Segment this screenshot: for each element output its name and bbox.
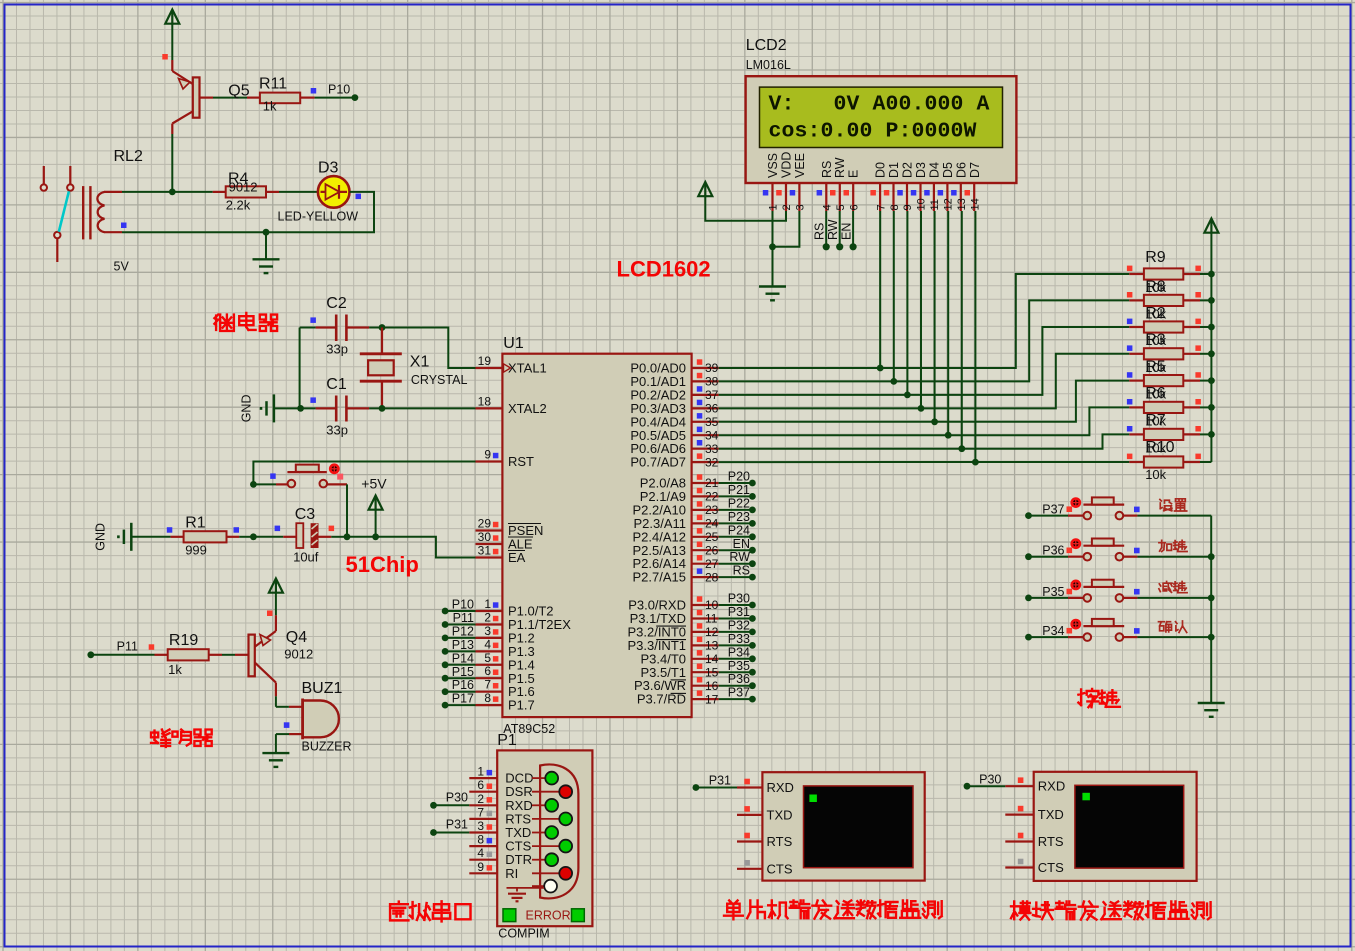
svg-text:Q5: Q5	[228, 83, 249, 100]
svg-text:P34: P34	[728, 645, 750, 659]
svg-text:P10: P10	[328, 83, 350, 97]
svg-text:RST: RST	[508, 454, 534, 469]
svg-text:BUZZER: BUZZER	[302, 740, 352, 754]
svg-text:Q4: Q4	[286, 629, 307, 646]
svg-text:9: 9	[477, 860, 484, 874]
svg-text:R8: R8	[1145, 279, 1166, 296]
svg-text:VDD: VDD	[780, 152, 794, 178]
svg-text:14: 14	[705, 652, 719, 666]
svg-text:R6: R6	[1145, 385, 1166, 402]
svg-text:XTAL2: XTAL2	[508, 401, 547, 416]
svg-text:8: 8	[484, 691, 491, 705]
svg-text:TXD: TXD	[767, 807, 793, 822]
svg-text:5: 5	[484, 651, 491, 665]
svg-text:6: 6	[484, 664, 491, 678]
svg-text:D1: D1	[887, 162, 901, 178]
svg-text:P11: P11	[117, 640, 138, 654]
svg-text:R2: R2	[1145, 305, 1166, 322]
svg-text:16: 16	[705, 679, 719, 693]
svg-text:10uf: 10uf	[293, 550, 319, 565]
svg-text:EN: EN	[840, 223, 854, 240]
svg-text:LED-YELLOW: LED-YELLOW	[278, 210, 359, 224]
svg-text:26: 26	[705, 544, 719, 558]
svg-text:COMPIM: COMPIM	[498, 927, 549, 941]
svg-text:25: 25	[705, 530, 719, 544]
svg-text:P31: P31	[446, 818, 468, 832]
svg-text:RS: RS	[813, 223, 827, 240]
svg-text:ERROR: ERROR	[526, 909, 571, 923]
svg-text:24: 24	[705, 517, 719, 531]
svg-text:31: 31	[478, 544, 492, 558]
svg-text:C2: C2	[326, 295, 347, 312]
svg-text:P32: P32	[728, 618, 750, 632]
svg-text:P30: P30	[446, 791, 468, 805]
svg-text:P37: P37	[728, 686, 750, 700]
svg-text:P31: P31	[709, 774, 731, 788]
svg-text:RL2: RL2	[114, 148, 143, 165]
svg-text:37: 37	[705, 388, 719, 402]
svg-text:RW: RW	[826, 219, 840, 240]
svg-text:VSS: VSS	[766, 153, 780, 178]
svg-text:12: 12	[943, 198, 955, 210]
svg-text:P1: P1	[497, 732, 517, 749]
svg-text:2: 2	[484, 611, 491, 625]
svg-text:R3: R3	[1145, 332, 1166, 349]
svg-text:13: 13	[956, 198, 968, 210]
svg-text:V: 0V A00.000 A: V: 0V A00.000 A	[769, 93, 990, 117]
svg-text:34: 34	[705, 428, 719, 442]
svg-text:D3: D3	[914, 162, 928, 178]
svg-text:3: 3	[477, 819, 484, 833]
svg-text:14: 14	[970, 198, 982, 210]
svg-text:P16: P16	[452, 678, 474, 692]
svg-text:35: 35	[705, 415, 719, 429]
svg-text:R19: R19	[169, 632, 198, 649]
svg-text:9: 9	[484, 448, 491, 462]
svg-text:RS: RS	[733, 564, 750, 578]
svg-text:X1: X1	[410, 354, 430, 371]
svg-text:29: 29	[478, 517, 492, 531]
svg-text:P15: P15	[452, 665, 474, 679]
svg-text:27: 27	[705, 557, 719, 571]
svg-text:4: 4	[484, 637, 491, 651]
svg-text:EN: EN	[733, 537, 750, 551]
svg-text:11: 11	[929, 199, 941, 210]
svg-text:39: 39	[705, 361, 719, 375]
svg-text:3: 3	[795, 204, 807, 210]
svg-text:9: 9	[902, 204, 914, 210]
svg-text:5V: 5V	[114, 260, 130, 274]
svg-text:E: E	[847, 170, 861, 178]
svg-text:GND: GND	[94, 523, 108, 551]
svg-text:1k: 1k	[263, 99, 277, 114]
svg-text:3: 3	[484, 624, 491, 638]
svg-text:2.2k: 2.2k	[226, 198, 251, 213]
svg-text:10: 10	[705, 598, 719, 612]
svg-text:D4: D4	[927, 162, 941, 178]
svg-text:8: 8	[477, 833, 484, 847]
svg-text:VEE: VEE	[793, 153, 807, 178]
svg-text:1: 1	[477, 765, 484, 779]
svg-text:23: 23	[705, 503, 719, 517]
svg-text:P23: P23	[728, 510, 750, 524]
svg-text:R7: R7	[1145, 412, 1166, 429]
svg-text:R5: R5	[1145, 358, 1166, 375]
svg-text:P31: P31	[728, 605, 750, 619]
svg-text:P24: P24	[728, 523, 750, 537]
svg-text:P35: P35	[728, 659, 750, 673]
svg-text:LM016L: LM016L	[746, 58, 791, 72]
svg-text:38: 38	[705, 375, 719, 389]
svg-text:P13: P13	[452, 638, 474, 652]
svg-text:21: 21	[705, 476, 719, 490]
svg-text:10: 10	[916, 198, 928, 210]
svg-text:33p: 33p	[326, 342, 348, 357]
svg-text:GND: GND	[240, 395, 254, 423]
svg-text:P17: P17	[452, 692, 474, 706]
svg-text:LCD2: LCD2	[746, 37, 787, 54]
svg-text:R9: R9	[1145, 249, 1166, 266]
svg-text:19: 19	[478, 354, 492, 368]
svg-text:13: 13	[705, 639, 719, 653]
svg-text:P35: P35	[1042, 585, 1064, 599]
svg-text:4: 4	[822, 204, 834, 210]
svg-text:CTS: CTS	[1038, 860, 1064, 875]
svg-text:51Chip: 51Chip	[346, 552, 419, 577]
svg-text:D2: D2	[901, 162, 915, 178]
svg-text:11: 11	[705, 612, 718, 626]
svg-text:RW: RW	[729, 550, 750, 564]
svg-text:P0.7/AD7: P0.7/AD7	[630, 455, 686, 470]
svg-text:P21: P21	[728, 483, 750, 497]
svg-text:33: 33	[705, 442, 719, 456]
svg-text:P22: P22	[728, 496, 750, 510]
svg-text:P34: P34	[1042, 624, 1064, 638]
svg-text:D7: D7	[968, 162, 982, 178]
svg-text:P1.7: P1.7	[508, 698, 535, 713]
svg-text:BUZ1: BUZ1	[302, 680, 343, 697]
svg-text:C3: C3	[295, 506, 316, 523]
svg-text:P33: P33	[728, 632, 750, 646]
svg-text:D6: D6	[954, 162, 968, 178]
svg-text:1k: 1k	[168, 662, 182, 677]
svg-text:R11: R11	[259, 76, 287, 93]
svg-text:P30: P30	[979, 772, 1001, 786]
svg-text:TXD: TXD	[1038, 807, 1064, 822]
svg-text:CRYSTAL: CRYSTAL	[411, 373, 468, 387]
svg-text:RTS: RTS	[767, 834, 793, 849]
svg-text:4: 4	[477, 846, 484, 860]
svg-text:D0: D0	[874, 162, 888, 178]
svg-text:P30: P30	[728, 592, 750, 606]
svg-text:1: 1	[768, 204, 780, 210]
svg-text:8: 8	[889, 204, 901, 210]
svg-text:9012: 9012	[284, 647, 313, 662]
svg-text:32: 32	[705, 455, 719, 469]
svg-text:6: 6	[848, 204, 860, 210]
svg-text:999: 999	[185, 543, 207, 558]
svg-text:U1: U1	[503, 335, 524, 352]
svg-text:R1: R1	[185, 515, 206, 532]
svg-text:RI: RI	[505, 866, 518, 881]
svg-text:36: 36	[705, 402, 719, 416]
svg-text:D3: D3	[318, 160, 339, 177]
svg-text:7: 7	[477, 805, 484, 819]
svg-text:17: 17	[705, 692, 719, 706]
svg-text:CTS: CTS	[767, 861, 793, 876]
svg-text:C1: C1	[326, 376, 347, 393]
svg-text:30: 30	[478, 530, 492, 544]
svg-text:10k: 10k	[1145, 467, 1166, 482]
svg-text:RXD: RXD	[1038, 779, 1065, 794]
svg-text:7: 7	[484, 678, 491, 692]
svg-text:cos:0.00 P:0000W: cos:0.00 P:0000W	[769, 120, 977, 144]
svg-text:28: 28	[705, 570, 719, 584]
svg-text:P11: P11	[453, 611, 474, 625]
svg-text:5: 5	[835, 204, 847, 210]
svg-text:RS: RS	[820, 161, 834, 178]
svg-text:P12: P12	[452, 624, 474, 638]
svg-text:P36: P36	[728, 672, 750, 686]
svg-text:LCD1602: LCD1602	[617, 257, 711, 282]
svg-text:R10: R10	[1145, 439, 1174, 456]
svg-text:P37: P37	[1042, 503, 1064, 517]
svg-text:15: 15	[705, 666, 719, 680]
svg-text:+5V: +5V	[361, 476, 387, 492]
svg-text:P36: P36	[1042, 544, 1064, 558]
svg-text:RXD: RXD	[767, 780, 794, 795]
svg-text:P10: P10	[452, 598, 474, 612]
svg-text:18: 18	[478, 394, 492, 408]
svg-text:P2.7/A15: P2.7/A15	[633, 570, 687, 585]
svg-text:P14: P14	[452, 651, 474, 665]
svg-text:22: 22	[705, 490, 719, 504]
svg-text:6: 6	[477, 778, 484, 792]
svg-text:RW: RW	[833, 157, 847, 178]
svg-text:EA: EA	[508, 550, 526, 565]
svg-text:33p: 33p	[326, 423, 348, 438]
svg-text:P20: P20	[728, 470, 750, 484]
svg-text:12: 12	[705, 625, 719, 639]
svg-text:D5: D5	[941, 162, 955, 178]
svg-text:2: 2	[781, 204, 793, 210]
svg-text:1: 1	[484, 597, 491, 611]
svg-text:RTS: RTS	[1038, 834, 1064, 849]
svg-text:2: 2	[477, 792, 484, 806]
svg-text:9012: 9012	[229, 180, 258, 195]
svg-text:7: 7	[875, 204, 887, 210]
svg-text:XTAL1: XTAL1	[508, 361, 547, 376]
